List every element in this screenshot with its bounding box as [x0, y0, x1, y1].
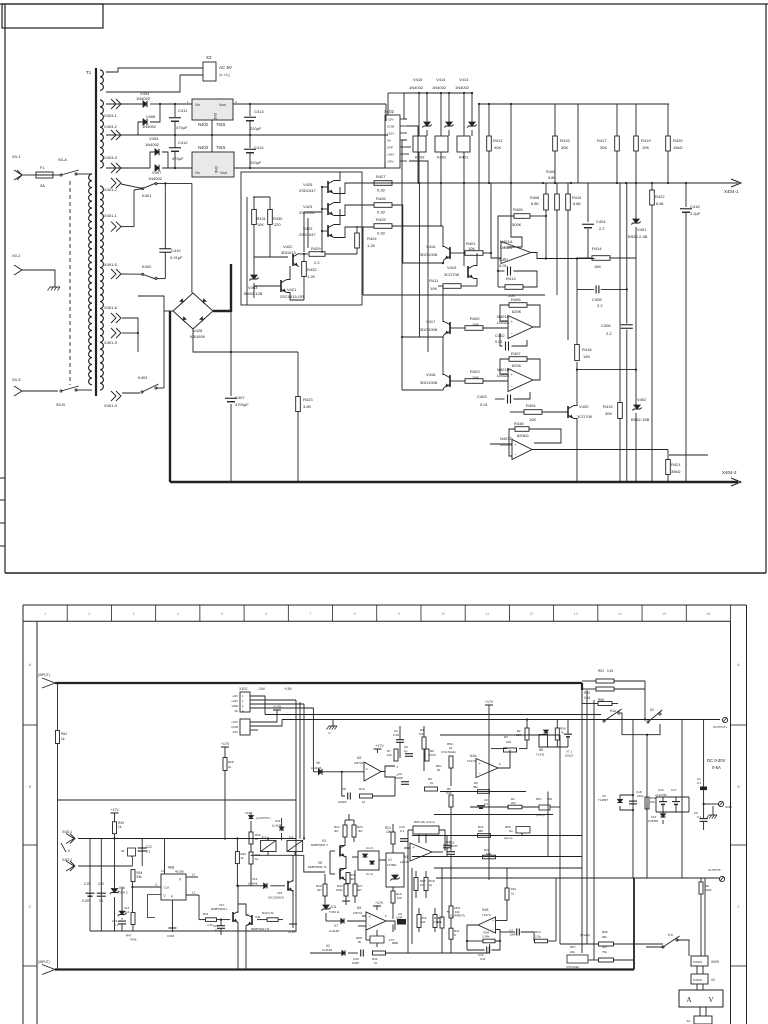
svg-text:F1: F1 — [40, 165, 45, 170]
svg-text:1k: 1k — [374, 961, 378, 965]
svg-text:4.7k: 4.7k — [268, 911, 274, 915]
svg-text:+17V: +17V — [376, 744, 385, 748]
svg-text:1k: 1k — [255, 837, 259, 841]
svg-text:3CG706: 3CG706 — [577, 414, 593, 419]
svg-text:6: 6 — [265, 612, 267, 616]
svg-text:1: 1 — [44, 612, 46, 616]
svg-text:100P: 100P — [352, 961, 359, 965]
svg-text:V420: V420 — [579, 404, 589, 409]
svg-text:10K: 10K — [642, 145, 649, 150]
svg-text:V416: V416 — [426, 244, 436, 249]
svg-text:10K: 10K — [472, 375, 479, 380]
svg-text:(INPUT): (INPUT) — [38, 960, 50, 964]
svg-text:7: 7 — [309, 612, 311, 616]
svg-text:39kΩ: 39kΩ — [671, 469, 680, 474]
svg-text:R13: R13 — [535, 930, 541, 934]
svg-text:X0-2: X0-2 — [12, 253, 21, 258]
svg-text:R411: R411 — [429, 278, 439, 283]
svg-text:C407: C407 — [235, 395, 245, 400]
svg-text:(C-V): (C-V) — [366, 872, 373, 876]
svg-text:MMBT9941.T1: MMBT9941.T1 — [308, 865, 327, 869]
svg-text:820K: 820K — [512, 363, 522, 368]
svg-text:COM: COM — [387, 125, 395, 129]
svg-text:K.6: K.6 — [668, 933, 673, 937]
svg-text:C406: C406 — [601, 323, 611, 328]
svg-text:N402: N402 — [198, 122, 209, 127]
svg-text:OUTPUT+: OUTPUT+ — [713, 725, 728, 729]
svg-text:R414: R414 — [592, 246, 602, 251]
svg-text:3CG708: 3CG708 — [444, 272, 460, 277]
svg-text:LL4148: LL4148 — [329, 929, 339, 933]
svg-text:V6: V6 — [316, 761, 320, 765]
svg-text:0.01μF: 0.01μF — [170, 255, 183, 260]
svg-text:Vb: Vb — [234, 709, 238, 713]
svg-text:X2: X2 — [206, 55, 212, 60]
svg-text:S0-B: S0-B — [56, 402, 65, 407]
svg-text:X403-3: X403-3 — [104, 155, 118, 160]
svg-text:-24V: -24V — [258, 687, 266, 691]
svg-text:R97: R97 — [602, 945, 608, 949]
svg-text:N401C: N401C — [497, 314, 510, 319]
svg-text:DC 0-30V: DC 0-30V — [707, 758, 726, 763]
svg-text:N6B: N6B — [168, 866, 174, 870]
svg-text:470μF: 470μF — [176, 125, 188, 130]
svg-text:R431: R431 — [257, 216, 266, 221]
svg-text:0.01: 0.01 — [480, 957, 486, 961]
svg-text:220μF: 220μF — [250, 160, 262, 165]
svg-text:R425: R425 — [376, 217, 386, 222]
svg-text:K403: K403 — [415, 155, 425, 160]
svg-text:V419: V419 — [447, 265, 457, 270]
svg-text:4013B: 4013B — [175, 870, 184, 874]
svg-text:+17V: +17V — [111, 808, 120, 812]
svg-text:470k: 470k — [130, 938, 137, 942]
svg-text:V1: V1 — [388, 858, 392, 862]
svg-text:R426: R426 — [376, 196, 386, 201]
svg-text:5: 5 — [221, 612, 223, 616]
svg-text:30: 30 — [121, 849, 125, 853]
svg-text:10k: 10k — [650, 800, 655, 804]
svg-text:X404-1: X404-1 — [724, 189, 739, 194]
svg-text:V428: V428 — [193, 328, 203, 333]
svg-text:R432: R432 — [307, 267, 317, 272]
svg-text:27k5: 27k5 — [429, 753, 436, 757]
svg-text:K1a: K1a — [610, 709, 616, 713]
svg-text:V424: V424 — [303, 204, 313, 209]
svg-text:1k: 1k — [429, 883, 433, 887]
svg-text:C8: C8 — [342, 787, 346, 791]
svg-text:6.2: 6.2 — [125, 910, 130, 914]
svg-text:RP5 10k (Vmm): RP5 10k (Vmm) — [414, 820, 435, 824]
svg-text:+15V: +15V — [387, 132, 395, 136]
svg-text:15: 15 — [662, 612, 666, 616]
svg-text:R408: R408 — [530, 195, 539, 200]
svg-text:6.8k: 6.8k — [656, 201, 664, 206]
svg-text:V417: V417 — [426, 319, 436, 324]
svg-text:R405: R405 — [513, 207, 523, 212]
svg-text:10K: 10K — [468, 246, 475, 251]
svg-text:C401: C401 — [499, 257, 509, 262]
svg-text:+15V: +15V — [284, 687, 293, 691]
svg-text:+17V: +17V — [375, 901, 384, 905]
svg-text:V13: V13 — [252, 877, 258, 881]
svg-text:C404: C404 — [596, 219, 606, 224]
svg-text:220μF: 220μF — [250, 126, 262, 131]
svg-text:1N4002: 1N4002 — [145, 142, 160, 147]
svg-text:V418: V418 — [426, 372, 436, 377]
svg-text:(to ±5₃): (to ±5₃) — [219, 73, 230, 77]
svg-text:C22: C22 — [146, 845, 152, 849]
svg-text:C403: C403 — [477, 394, 487, 399]
svg-text:+24V: +24V — [387, 153, 395, 157]
svg-text:2.2μF: 2.2μF — [690, 211, 701, 216]
svg-text:R403: R403 — [470, 369, 480, 374]
svg-text:N1B: N1B — [482, 908, 489, 912]
svg-text:X402.1: X402.1 — [62, 830, 72, 834]
svg-text:13: 13 — [574, 612, 578, 616]
svg-text:X2: X2 — [686, 1019, 690, 1023]
svg-text:Vout: Vout — [219, 103, 226, 107]
svg-text:A: A — [29, 662, 32, 667]
svg-text:X0-1: X0-1 — [12, 154, 21, 159]
svg-text:0.18: 0.18 — [393, 733, 399, 737]
svg-text:V413: V413 — [459, 77, 469, 82]
svg-text:2SC1815GH: 2SC1815GH — [268, 896, 284, 900]
svg-text:X404-2: X404-2 — [722, 470, 737, 475]
svg-text:C19: C19 — [84, 882, 90, 886]
svg-text:B: B — [737, 784, 740, 789]
svg-text:500K: 500K — [512, 222, 522, 227]
svg-text:6.8K: 6.8K — [531, 201, 539, 206]
svg-text:30K: 30K — [605, 411, 612, 416]
svg-text:1M: 1M — [421, 920, 426, 924]
svg-text:V40: V40 — [255, 915, 261, 919]
svg-text:R96: R96 — [602, 930, 608, 934]
svg-text:3.6K: 3.6K — [303, 404, 312, 409]
svg-text:R415: R415 — [560, 138, 570, 143]
svg-text:TL072: TL072 — [467, 759, 476, 763]
svg-text:LL4148: LL4148 — [322, 948, 332, 952]
svg-text:PUSUN: PUSUN — [693, 978, 702, 982]
svg-text:Vin: Vin — [195, 103, 200, 107]
svg-text:R420: R420 — [673, 138, 683, 143]
svg-text:0.1: 0.1 — [114, 923, 119, 927]
svg-text:V: V — [708, 996, 713, 1004]
svg-text:K2: K2 — [650, 708, 654, 712]
svg-text:X401-4: X401-4 — [104, 403, 118, 408]
svg-text:R430: R430 — [273, 216, 283, 221]
svg-text:LM324: LM324 — [497, 373, 510, 378]
svg-text:C412: C412 — [178, 140, 188, 145]
svg-text:R412: R412 — [493, 138, 503, 143]
svg-text:-17V: -17V — [388, 938, 394, 942]
svg-text:R62: R62 — [61, 732, 67, 736]
svg-text:10K: 10K — [472, 322, 479, 327]
svg-text:(VOTAGE): (VOTAGE) — [566, 965, 579, 969]
svg-text:R51: R51 — [598, 669, 604, 673]
svg-text:V406: V406 — [146, 114, 156, 119]
svg-text:0.1: 0.1 — [99, 899, 104, 903]
svg-text:N5: N5 — [539, 748, 543, 752]
svg-text:1k: 1k — [241, 856, 245, 860]
svg-text:1N4002: 1N4002 — [148, 176, 163, 181]
svg-text:R415: R415 — [603, 404, 613, 409]
svg-text:V421: V421 — [287, 287, 297, 292]
svg-text:-15V: -15V — [387, 118, 394, 122]
svg-text:1.2K: 1.2K — [307, 274, 316, 279]
svg-text:40K: 40K — [494, 145, 501, 150]
svg-text:2.2: 2.2 — [597, 303, 603, 308]
svg-text:(INPUT): (INPUT) — [38, 673, 50, 677]
svg-text:LM741: LM741 — [354, 761, 364, 765]
svg-text:0.1: 0.1 — [484, 802, 489, 806]
svg-text:X0-3: X0-3 — [12, 377, 21, 382]
svg-text:10k: 10k — [455, 910, 460, 914]
svg-text:MMBT9941.LT1: MMBT9941.LT1 — [251, 927, 270, 931]
svg-text:15K: 15K — [583, 354, 590, 359]
svg-text:S0-A: S0-A — [58, 157, 67, 162]
svg-text:10K: 10K — [529, 417, 536, 422]
svg-text:1N4002: 1N4002 — [409, 85, 424, 90]
svg-text:2.2k: 2.2k — [535, 935, 541, 939]
svg-text:95k: 95k — [473, 785, 478, 789]
svg-text:C411: C411 — [178, 108, 188, 113]
svg-text:N2: N2 — [357, 756, 361, 760]
svg-text:10k: 10k — [387, 753, 392, 757]
svg-text:0.01: 0.01 — [495, 339, 504, 344]
svg-text:C: C — [737, 904, 740, 909]
svg-text:LM324: LM324 — [497, 320, 510, 325]
svg-text:OUTPUT-: OUTPUT- — [708, 868, 722, 872]
svg-text:1k: 1k — [511, 892, 515, 896]
svg-text:BS62-15B: BS62-15B — [631, 417, 650, 422]
svg-text:GND: GND — [232, 704, 238, 708]
svg-text:(CURRENT): (CURRENT) — [450, 914, 465, 918]
svg-text:10k: 10k — [397, 896, 402, 900]
svg-text:GND: GND — [214, 166, 218, 174]
svg-text:4k7: 4k7 — [358, 829, 363, 833]
svg-text:TL431: TL431 — [536, 753, 545, 757]
svg-text:2SD1047: 2SD1047 — [299, 188, 316, 193]
svg-text:5k: 5k — [437, 768, 441, 772]
svg-text:K402: K402 — [142, 264, 152, 269]
svg-text:R427: R427 — [376, 174, 386, 179]
svg-text:Cₓ: Cₓ — [328, 731, 331, 735]
svg-text:100LD: 100LD — [565, 754, 573, 758]
svg-text:-24V: -24V — [387, 160, 394, 164]
svg-text:LM324: LM324 — [500, 245, 513, 250]
svg-text:0.39: 0.39 — [377, 210, 386, 215]
svg-text:V402: V402 — [637, 397, 647, 402]
svg-text:N1A: N1A — [470, 754, 477, 758]
svg-text:TV02.1L: TV02.1L — [329, 910, 340, 914]
svg-text:4k7: 4k7 — [350, 877, 355, 881]
svg-text:+17V: +17V — [485, 700, 494, 704]
svg-text:K401: K401 — [142, 193, 152, 198]
svg-text:X401-5: X401-5 — [104, 262, 118, 267]
svg-text:100P: 100P — [451, 844, 458, 848]
svg-text:100P: 100P — [510, 933, 516, 937]
svg-text:10k: 10k — [434, 920, 439, 924]
svg-text:470μF: 470μF — [172, 156, 184, 161]
svg-text:76k: 76k — [602, 950, 607, 954]
svg-text:R12: R12 — [511, 887, 517, 891]
svg-text:R410: R410 — [572, 195, 582, 200]
svg-text:K403: K403 — [138, 375, 148, 380]
svg-text:3DG1008: 3DG1008 — [420, 252, 438, 257]
svg-text:15K: 15K — [594, 264, 601, 269]
svg-text:1.2K: 1.2K — [367, 243, 376, 248]
svg-text:MMBT9941.L: MMBT9941.L — [211, 907, 228, 911]
svg-text:R41: R41 — [203, 912, 209, 916]
svg-text:C413: C413 — [254, 109, 264, 114]
svg-text:C405: C405 — [592, 297, 602, 302]
svg-text:R419: R419 — [641, 138, 651, 143]
svg-text:0.39: 0.39 — [377, 231, 386, 236]
svg-text:3: 3 — [133, 612, 135, 616]
svg-text:R406: R406 — [511, 297, 521, 302]
svg-text:4700μF: 4700μF — [235, 402, 249, 407]
svg-text:CLK: CLK — [164, 886, 170, 890]
svg-text:+24V: +24V — [231, 699, 238, 703]
svg-text:7815: 7815 — [216, 122, 226, 127]
svg-text:X009: X009 — [711, 960, 719, 964]
svg-text:6.8K: 6.8K — [548, 176, 556, 180]
svg-text:V19: V19 — [275, 819, 281, 823]
svg-text:MMBT9941.T: MMBT9941.T — [311, 843, 328, 847]
svg-text:3A: 3A — [40, 183, 45, 188]
svg-text:LL4148: LL4148 — [248, 882, 258, 886]
svg-text:5m: 5m — [509, 829, 514, 833]
svg-text:220: 220 — [274, 222, 281, 227]
svg-text:GND: GND — [725, 805, 733, 809]
svg-text:N401D: N401D — [500, 436, 513, 441]
svg-text:V415: V415 — [413, 77, 423, 82]
svg-text:220k: 220k — [705, 888, 712, 892]
svg-text:PUSUN: PUSUN — [693, 960, 702, 964]
svg-text:+: + — [492, 919, 494, 923]
svg-text:A: A — [737, 662, 740, 667]
svg-text:COM: COM — [288, 930, 296, 934]
svg-text:1k: 1k — [362, 800, 366, 804]
svg-text:T1: T1 — [86, 70, 92, 75]
svg-text:0.39: 0.39 — [377, 188, 386, 193]
svg-text:+0.47/250: +0.47/250 — [655, 793, 667, 797]
svg-text:100k: 100k — [336, 888, 343, 892]
svg-text:+17V: +17V — [273, 705, 282, 709]
svg-text:X401-1: X401-1 — [104, 213, 118, 218]
svg-text:100: 100 — [506, 740, 511, 744]
svg-text:R416: R416 — [582, 347, 592, 352]
svg-text:7k: 7k — [561, 731, 565, 735]
svg-text:R438: R438 — [514, 421, 524, 426]
svg-text:1N4002: 1N4002 — [455, 85, 470, 90]
svg-text:R50: R50 — [584, 691, 590, 695]
svg-text:A: A — [686, 996, 691, 1004]
svg-text:V425: V425 — [303, 182, 313, 187]
svg-text:2SD1047: 2SD1047 — [299, 210, 316, 215]
svg-text:1N4002: 1N4002 — [136, 96, 151, 101]
svg-text:R402: R402 — [470, 316, 480, 321]
svg-text:K402: K402 — [437, 155, 447, 160]
svg-text:-15V: -15V — [232, 730, 238, 734]
svg-text:V401: V401 — [637, 227, 647, 232]
svg-text:(Preset): (Preset) — [580, 933, 590, 937]
svg-text:9: 9 — [398, 612, 400, 616]
svg-text:0.1: 0.1 — [697, 781, 702, 785]
svg-text:0VP: 0VP — [387, 146, 393, 150]
svg-text:RP1: RP1 — [536, 797, 542, 801]
svg-text:N401A: N401A — [500, 239, 513, 244]
svg-text:R424: R424 — [367, 236, 377, 241]
svg-text:0.02F: 0.02F — [82, 899, 90, 903]
svg-text:2.2: 2.2 — [314, 260, 320, 265]
svg-text:4k7: 4k7 — [317, 888, 322, 892]
svg-text:R10: R10 — [359, 787, 365, 791]
svg-text:4: 4 — [177, 612, 179, 616]
svg-text:BS62-12B: BS62-12B — [244, 291, 263, 296]
svg-text:COM: COM — [231, 725, 238, 729]
svg-text:R40: R40 — [262, 911, 268, 915]
svg-text:1k: 1k — [228, 765, 232, 769]
svg-text:COM: COM — [167, 934, 175, 938]
svg-text:Vb: Vb — [387, 139, 391, 143]
svg-text:1μ: 1μ — [404, 749, 408, 753]
svg-text:10: 10 — [441, 612, 445, 616]
svg-text:C414: C414 — [254, 145, 264, 150]
svg-text:R3: R3 — [504, 735, 508, 739]
svg-text:3DD013: 3DD013 — [281, 250, 296, 255]
svg-text:V11: V11 — [331, 905, 337, 909]
svg-text:X402: X402 — [384, 109, 394, 114]
svg-text:TL072: TL072 — [482, 913, 491, 917]
svg-text:C410: C410 — [171, 248, 181, 253]
svg-text:C418: C418 — [690, 204, 700, 209]
svg-text:15kΩ: 15kΩ — [673, 145, 682, 150]
svg-text:16: 16 — [706, 612, 710, 616]
svg-text:2.2: 2.2 — [606, 331, 612, 336]
svg-text:0-5A: 0-5A — [712, 765, 721, 770]
svg-text:R421: R421 — [671, 462, 681, 467]
svg-text:R413: R413 — [506, 276, 516, 281]
svg-text:100PF: 100PF — [338, 800, 347, 804]
svg-text:0.01: 0.01 — [499, 263, 508, 268]
svg-text:K.2: K.2 — [289, 835, 293, 839]
svg-text:100μ: 100μ — [637, 794, 644, 798]
svg-text:R429: R429 — [311, 246, 321, 251]
svg-text:GND: GND — [213, 113, 217, 121]
svg-text:3DG1008: 3DG1008 — [420, 380, 438, 385]
svg-text:30K: 30K — [600, 145, 607, 150]
svg-text:X2: X2 — [711, 978, 715, 982]
svg-text:10k: 10k — [386, 830, 392, 834]
svg-text:680: 680 — [478, 829, 483, 833]
svg-text:B: B — [29, 784, 32, 789]
svg-text:X403-2: X403-2 — [104, 124, 118, 129]
svg-text:20k: 20k — [570, 950, 575, 954]
svg-text:1000P: 1000P — [395, 776, 403, 780]
svg-text:1N4002: 1N4002 — [432, 85, 447, 90]
svg-text:0.15: 0.15 — [584, 696, 590, 700]
svg-text:93k: 93k — [137, 875, 143, 879]
svg-text:V407: V407 — [152, 170, 162, 175]
svg-text:0.1: 0.1 — [146, 850, 151, 854]
svg-text:(A-OUTPUT): (A-OUTPUT) — [256, 817, 271, 820]
svg-text:1N5408: 1N5408 — [648, 819, 658, 823]
svg-text:RP7: RP7 — [570, 945, 576, 949]
svg-text:(C-C): (C-C) — [366, 846, 373, 850]
svg-text:1N4002: 1N4002 — [142, 124, 157, 129]
